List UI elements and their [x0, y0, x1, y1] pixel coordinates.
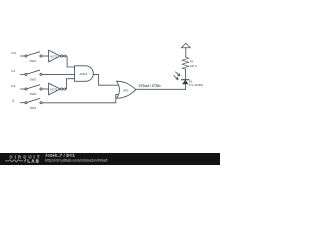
- or-gate OR1: [117, 81, 136, 98]
- svg-text:AND1: AND1: [80, 72, 88, 76]
- svg-text:NOT1: NOT1: [50, 54, 58, 58]
- wire D1 stub: [21, 73, 25, 75]
- wire NOT2 output to AND1 input C: [66, 79, 75, 89]
- svg-text:R1: R1: [190, 59, 194, 63]
- wire SW4 to OR1 input B: [42, 95, 118, 103]
- svg-text:SW3: SW3: [30, 92, 37, 96]
- wire AND1 output to OR1 input A: [93, 74, 118, 85]
- watermark logo bolt: [24, 159, 26, 163]
- switch SW4: [25, 99, 42, 110]
- svg-text:NOT2: NOT2: [50, 87, 58, 91]
- wire D2 stub: [21, 88, 25, 90]
- wire IN1 stub: [21, 55, 25, 57]
- svg-text:LAB: LAB: [28, 159, 41, 164]
- svg-text:OR1: OR1: [123, 89, 129, 93]
- switch SW3: [25, 85, 42, 96]
- svg-text:SW1: SW1: [30, 59, 37, 63]
- svg-text:IN1: IN1: [11, 51, 16, 55]
- watermark bar: [0, 153, 220, 165]
- watermark logo resistor zigzag: [5, 160, 23, 162]
- svg-text:SW4: SW4: [30, 106, 37, 110]
- wire SW2 to AND1 input B: [42, 73, 74, 75]
- svg-text:LTL-307EE: LTL-307EE: [189, 83, 203, 87]
- node IN1: [11, 51, 16, 55]
- power VCC arrow: [182, 43, 191, 57]
- svg-text:Jozek_7 / BC1: Jozek_7 / BC1: [45, 152, 76, 157]
- node Q: [12, 98, 15, 102]
- LED D1: [174, 72, 203, 87]
- wire R1 to LED D1: [185, 69, 187, 80]
- wire NOT1 output to AND1 input A: [66, 56, 75, 67]
- svg-text:http://circuitlab.com/c/xma2ev: http://circuitlab.com/c/xma2ev39ka5: [45, 158, 107, 162]
- node D1: [11, 69, 15, 73]
- net label STB: [139, 84, 161, 88]
- wire SW1 to NOT1: [42, 55, 48, 57]
- and-gate AND1: [75, 66, 94, 82]
- switch SW1: [25, 52, 42, 63]
- svg-text:SW2: SW2: [30, 78, 37, 82]
- wire SW3 to NOT2: [42, 88, 48, 90]
- svg-text:D1: D1: [11, 69, 15, 73]
- resistor R1: [182, 57, 197, 69]
- wire Q stub: [21, 102, 25, 104]
- wire OR1 output to LED node: [136, 88, 186, 90]
- wire LED to OR output junction: [184, 84, 186, 89]
- switch SW2: [25, 70, 42, 81]
- inverter NOT1: [49, 50, 66, 62]
- inverter NOT2: [49, 83, 66, 95]
- node D2: [11, 84, 15, 88]
- svg-text:D2: D2: [11, 84, 15, 88]
- svg-text:STBout / STBin: STBout / STBin: [139, 84, 161, 88]
